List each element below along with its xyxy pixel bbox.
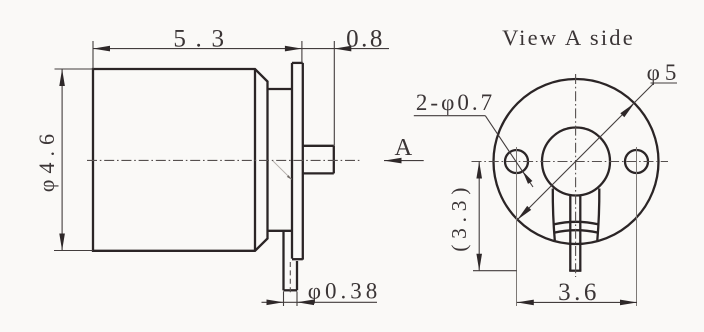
svg-text:φ0.38: φ0.38 [308,279,382,304]
svg-text:5.3: 5.3 [173,26,233,53]
svg-text:(3.3): (3.3) [447,182,471,252]
svg-text:φ5: φ5 [647,60,682,85]
svg-text:0.8: 0.8 [346,26,385,53]
svg-text:View A side: View A side [502,25,635,50]
svg-text:2-φ0.7: 2-φ0.7 [416,90,495,115]
svg-text:A: A [394,134,412,161]
svg-text:3.6: 3.6 [558,279,600,306]
svg-text:φ4.6: φ4.6 [34,128,59,192]
